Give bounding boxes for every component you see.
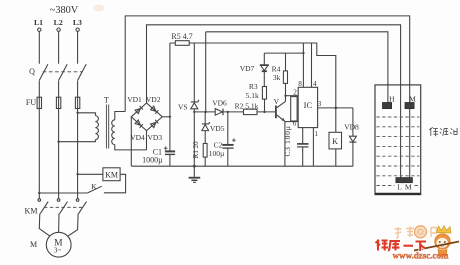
contact K wire left (39, 192, 87, 194)
diode VD4 (135, 120, 143, 128)
svg-text:3k: 3k (273, 73, 281, 82)
wire to motor mid (58, 214, 60, 233)
IC U1 box (298, 87, 317, 127)
svg-text:KM: KM (25, 207, 38, 216)
zener VD7 (263, 53, 265, 86)
wire emitter down (284, 122, 286, 167)
contactor KM dashed link (44, 206, 82, 208)
svg-text:100µ: 100µ (209, 149, 225, 158)
tank walls (375, 85, 421, 195)
svg-text:K: K (332, 137, 338, 146)
switch Q blades (39, 64, 86, 80)
wire to motor left (39, 214, 50, 237)
wire KM coil right loop (104, 174, 126, 193)
svg-text:VD1: VD1 (127, 95, 142, 104)
svg-text:VD4: VD4 (130, 133, 145, 142)
C1 plus sign (164, 146, 168, 150)
resistor between pin2 and pin6 (291, 97, 297, 121)
junction L2/primary (57, 141, 59, 143)
transformer primary winding (95, 116, 98, 140)
wire1 outer loop secondary to tank M rod (125, 16, 410, 112)
transistor V base bar (275, 106, 277, 119)
svg-text:3~: 3~ (54, 246, 62, 254)
svg-text:6: 6 (293, 119, 297, 127)
switch Q dashed link (43, 71, 83, 73)
electrode M block (405, 103, 414, 109)
capacitor C3 (302, 128, 304, 167)
junction pin8/wire5 (302, 52, 304, 54)
svg-text:VD3: VD3 (148, 133, 163, 142)
wire3 loop sense to tank H electrode (206, 32, 388, 103)
wire K leads (335, 108, 337, 166)
junction L3/primary (76, 112, 78, 114)
svg-text:L1: L1 (34, 18, 43, 27)
electrode bottom block L/M (396, 178, 413, 183)
watermark faint logo ring (415, 226, 427, 238)
contactor KM blades (40, 202, 86, 214)
svg-text:M: M (405, 182, 412, 191)
svg-text:www.dzsc.com: www.dzsc.com (393, 251, 449, 261)
fuse FU2 (56, 97, 60, 108)
resistor R5 (175, 41, 189, 46)
resistor R2 (257, 111, 275, 113)
svg-text:V: V (274, 97, 280, 106)
wire VS line (193, 43, 195, 166)
svg-text:VD7: VD7 (240, 64, 255, 73)
zener VS (191, 103, 198, 109)
svg-text:R5 4.7: R5 4.7 (171, 32, 192, 41)
transformer primary top lead (78, 113, 96, 116)
diode VD8 (352, 108, 354, 166)
junction sense node (205, 111, 207, 113)
transistor V collector (277, 101, 286, 107)
svg-text:1: 1 (314, 130, 318, 138)
bridge diamond edges (131, 103, 162, 131)
wire phase L3 (77, 31, 79, 198)
wire bottom rail (131, 165, 353, 167)
wire IC pin2 (286, 95, 299, 97)
wire5 sub rail (264, 52, 303, 54)
svg-text:T: T (104, 96, 109, 105)
svg-text:L3: L3 (73, 18, 82, 27)
junction pin3 node (335, 107, 338, 110)
svg-text:3: 3 (318, 100, 322, 108)
electrode H block (383, 103, 392, 109)
diode VD1 (135, 106, 143, 114)
svg-text:VD5: VD5 (210, 124, 225, 133)
terminal circle L2 (57, 28, 60, 31)
svg-text:5.1k: 5.1k (246, 91, 259, 100)
svg-text:K: K (91, 182, 97, 191)
svg-text:L2: L2 (54, 18, 63, 27)
transformer secondary winding (112, 120, 115, 145)
junction L3/KM coil (76, 173, 78, 175)
junction C2 top (227, 111, 229, 113)
svg-text:R3: R3 (249, 82, 258, 91)
svg-text:R2 5.1k: R2 5.1k (235, 102, 259, 111)
svg-text:4: 4 (313, 80, 317, 88)
resistor R3 (262, 87, 266, 100)
ground (193, 166, 195, 177)
svg-text:8: 8 (298, 80, 302, 88)
wire phase L2 (58, 31, 60, 198)
svg-text:2: 2 (293, 89, 297, 97)
junction R3/base (263, 111, 265, 113)
svg-text:1000µ: 1000µ (142, 156, 163, 165)
terminal circle L1 (38, 28, 41, 31)
wire IC pin6 (285, 121, 298, 123)
diode VD2 (151, 106, 159, 114)
svg-text:IC: IC (304, 100, 313, 110)
svg-text:VD6: VD6 (212, 98, 227, 107)
wire top rail Vcc (wire4) (170, 43, 336, 108)
wire bridge bottom vertex lead (146, 131, 148, 150)
fuse FU1 (37, 97, 41, 108)
terminal circle L3 (76, 28, 79, 31)
junction right vertex node (169, 116, 171, 118)
svg-text:M: M (30, 240, 37, 249)
svg-text:FU: FU (26, 98, 36, 107)
capacitor C1 (169, 117, 171, 166)
watermark mascot (414, 226, 459, 257)
resistor R4 (285, 53, 287, 101)
wire2 loop bridge top to tank bottom electrode (147, 25, 401, 178)
wire M rod inside tank (409, 109, 411, 178)
transistor V emitter with arrow (277, 115, 285, 122)
motor M circle (46, 232, 71, 257)
contactor KM main contacts circles (38, 199, 41, 202)
svg-text:C3 100µ: C3 100µ (283, 125, 292, 156)
capacitor C2 (227, 112, 229, 166)
wire H-sense (wire3 column) (205, 32, 207, 112)
wire IC pin3 (318, 107, 353, 109)
svg-text:VS: VS (178, 102, 188, 111)
svg-text:M: M (409, 94, 416, 103)
wire IC pin4 (311, 43, 313, 87)
junction pin2/R4/collector (284, 95, 286, 97)
wire to motor right (67, 214, 78, 237)
wire R5 left lead down (169, 43, 171, 117)
watermark faint text row (395, 227, 437, 239)
svg-text:R1 20: R1 20 (192, 141, 200, 158)
transformer core (106, 105, 108, 149)
wire bridge right vertex (162, 116, 170, 118)
wire VD6 row (194, 111, 243, 113)
svg-text:~380V: ~380V (50, 5, 79, 16)
svg-text:VD2: VD2 (146, 95, 161, 104)
svg-text:KM: KM (105, 171, 118, 180)
resistor R1 (203, 144, 207, 158)
relay K coil box (329, 132, 342, 149)
wire phase L1 (38, 31, 40, 198)
watermark weiku text fake glyphs (376, 240, 427, 252)
wire bridge left vertex to rail (130, 117, 132, 166)
wire IC pin8 (302, 43, 304, 87)
svg-text:Q: Q (29, 67, 35, 76)
junction VS/VD6 (193, 111, 195, 113)
svg-text:VD8: VD8 (344, 123, 359, 132)
svg-text:R4: R4 (272, 65, 281, 74)
label chu-ye-chi (storage tank) fake glyphs (429, 127, 457, 136)
diode VD3 (151, 120, 159, 128)
junction L1/K wire (38, 192, 40, 194)
tank bottom thick edge (375, 193, 420, 195)
zener VD5 (204, 112, 206, 144)
svg-text:L: L (397, 182, 402, 191)
diode VD6 (215, 109, 222, 116)
faint smudge top (94, 5, 105, 12)
coil KM box (103, 168, 120, 181)
transformer secondary top lead (115, 112, 125, 120)
wire KM coil to L3 (78, 173, 103, 175)
svg-text:H: H (389, 94, 395, 103)
transformer primary bottom lead (59, 140, 96, 142)
transformer secondary bottom lead (115, 145, 147, 150)
contact K blade (87, 186, 102, 193)
wire IC pin1 (312, 128, 314, 167)
fuse FU3 (75, 97, 79, 108)
tank liquid dashed lines (376, 117, 419, 186)
C2 plus sign (232, 138, 236, 142)
